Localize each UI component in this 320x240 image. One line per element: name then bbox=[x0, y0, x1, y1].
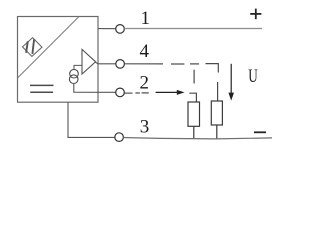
R2 drop solid lead bbox=[217, 82, 219, 101]
R1 bottom lead bbox=[193, 126, 195, 138]
terminal circle 4 bbox=[116, 60, 125, 69]
wire 2 solid part bbox=[125, 92, 133, 94]
op-amp triangle bbox=[82, 49, 96, 74]
wire 2 dash 2 bbox=[142, 92, 149, 94]
DC symbol lower bar bbox=[30, 91, 53, 93]
svg-text:1: 1 bbox=[140, 8, 150, 29]
wire 4 dash corner into R2 drop bbox=[206, 64, 219, 73]
minus sign bbox=[254, 131, 266, 133]
U voltage arrow shaft bbox=[230, 64, 232, 94]
wire 4 dash 2 bbox=[190, 63, 199, 65]
R2 bottom lead bbox=[216, 125, 218, 139]
wire 1 to plus supply bbox=[124, 28, 262, 30]
wire current source to op-amp input bbox=[74, 65, 82, 69]
minus supply rail bbox=[123, 138, 272, 139]
svg-text:U: U bbox=[248, 66, 258, 87]
svg-text:3: 3 bbox=[140, 116, 150, 137]
svg-text:2: 2 bbox=[140, 73, 150, 94]
resistor R1 bbox=[188, 102, 200, 126]
wire op-amp apex to terminal 4 bbox=[96, 62, 116, 64]
wire 2 dash 1 bbox=[135, 92, 140, 94]
arrow shaft on wire 2 bbox=[156, 91, 178, 93]
svg-text:4: 4 bbox=[139, 41, 149, 62]
terminal circle 3 bbox=[115, 133, 124, 142]
terminal circle 2 bbox=[116, 88, 125, 97]
wire 4 solid part bbox=[124, 63, 163, 65]
terminal circle 1 bbox=[116, 25, 125, 34]
sensor box bbox=[18, 17, 99, 103]
diamond hatch line a bbox=[26, 41, 28, 53]
diagonal divider bbox=[18, 17, 80, 79]
dashed drop from wire 4 to R1 bbox=[193, 70, 195, 84]
plus sign horizontal stroke bbox=[250, 13, 261, 15]
current source circle lower bbox=[69, 75, 78, 84]
wire box bottom to terminal 3 bbox=[68, 102, 115, 137]
wire 2 corner into resistor R1 bbox=[189, 93, 196, 102]
wire current source to terminal 2 bbox=[74, 83, 116, 92]
proximity sensor symbol (diamond) bbox=[23, 38, 43, 57]
resistor R2 bbox=[211, 101, 222, 125]
DC symbol upper bar bbox=[30, 84, 54, 86]
arrow head on wire 2 bbox=[177, 90, 185, 95]
diamond hatch line b bbox=[32, 39, 34, 54]
plus sign vertical stroke bbox=[255, 9, 257, 20]
wire 4 dash 1 bbox=[171, 63, 184, 65]
current source circle upper bbox=[70, 69, 79, 78]
U voltage arrow head bbox=[228, 93, 234, 101]
wire box to terminal 1 bbox=[98, 28, 116, 30]
